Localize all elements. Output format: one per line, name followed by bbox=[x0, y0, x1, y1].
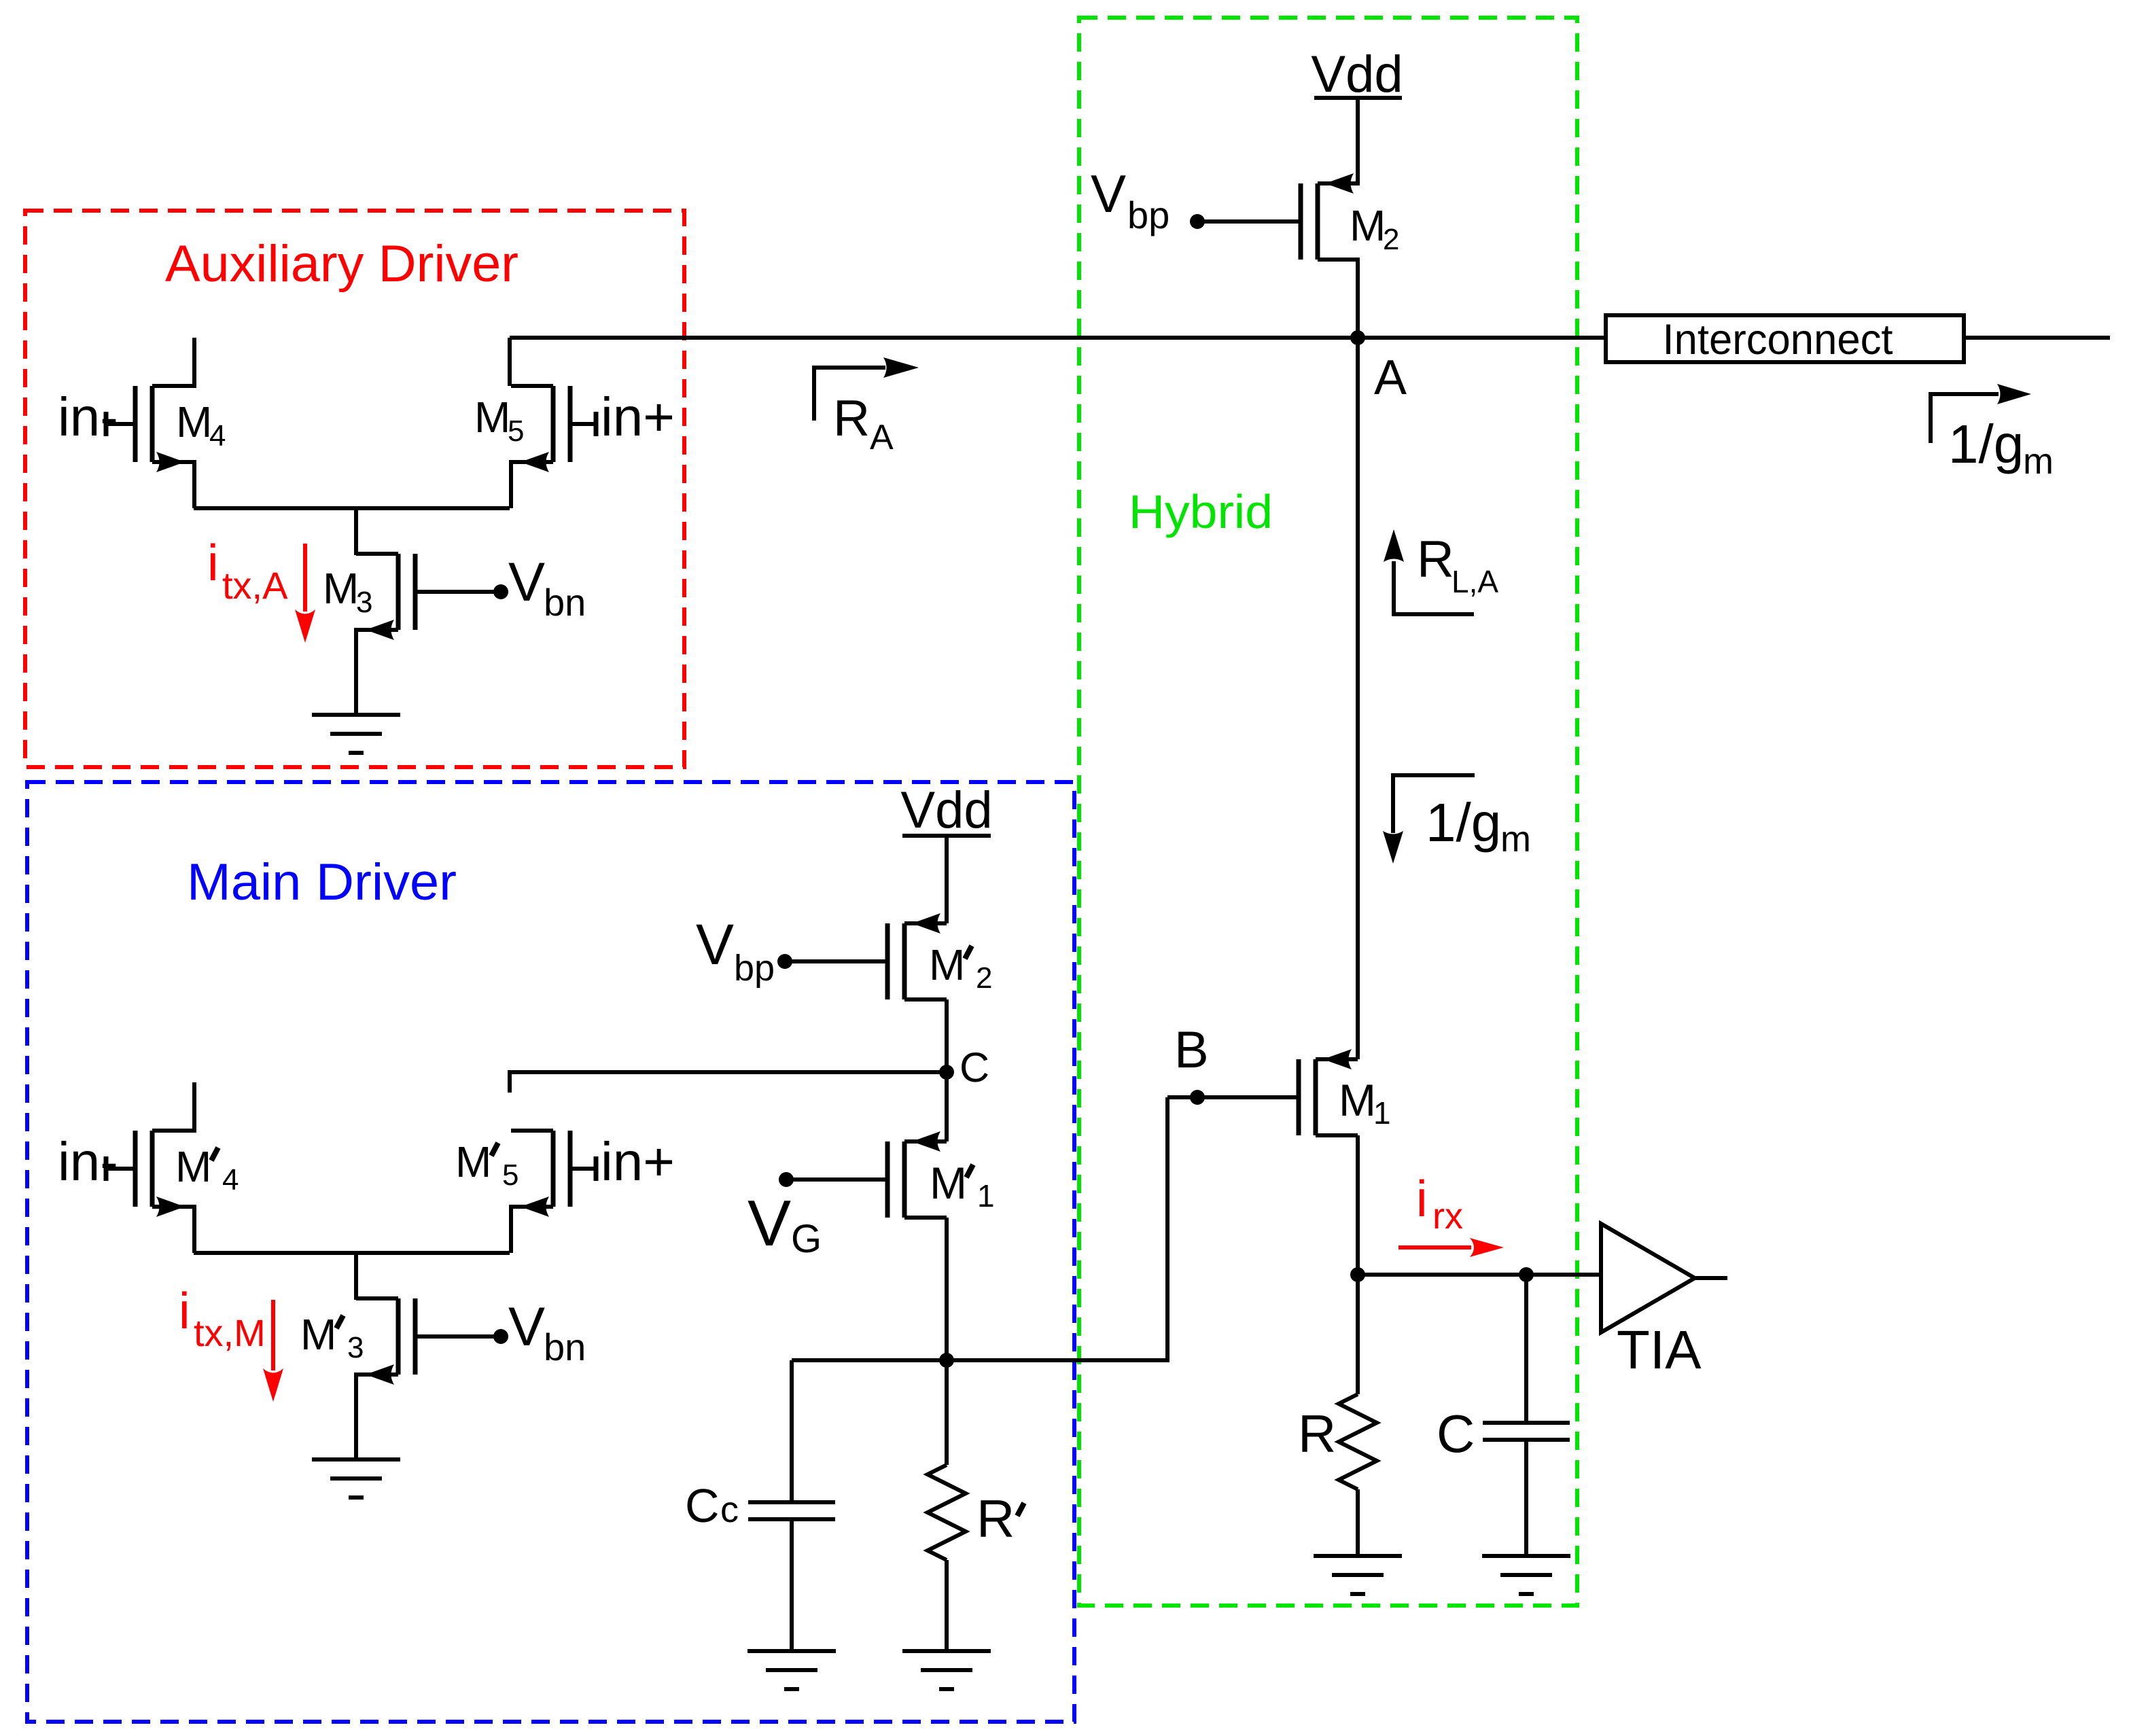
label in- (aux) bbox=[58, 387, 118, 447]
svg-text:R: R bbox=[833, 389, 870, 446]
op-amp TIA bbox=[1601, 1224, 1727, 1332]
svg-text:Vdd: Vdd bbox=[1311, 46, 1403, 103]
svg-text:V: V bbox=[747, 1187, 791, 1260]
svg-text:R: R bbox=[976, 1489, 1015, 1548]
label M1 bbox=[1339, 1075, 1391, 1131]
transistor M'1 bbox=[786, 1131, 947, 1218]
wire interconnect output bbox=[1964, 336, 2110, 340]
transistor M1 bbox=[1167, 1049, 1358, 1135]
svg-text:M: M bbox=[474, 393, 510, 442]
arrow 1/gm annotation (hybrid) bbox=[1383, 775, 1475, 864]
wire Vdd to M2 source bbox=[1356, 98, 1360, 183]
svg-text:in-: in- bbox=[58, 387, 118, 447]
wire M5 drain to output bus bbox=[508, 338, 512, 386]
label TIA bbox=[1617, 1319, 1702, 1380]
node B bbox=[1174, 1021, 1209, 1105]
wire node to Cc branch bbox=[792, 1358, 947, 1362]
label in- (main) bbox=[58, 1131, 118, 1192]
svg-text:L,A: L,A bbox=[1451, 564, 1498, 599]
wire main tail drain riser bbox=[354, 1253, 358, 1300]
label M'4 bbox=[175, 1142, 239, 1197]
label M'2 bbox=[929, 940, 992, 995]
wire node A to M1 source bbox=[1356, 338, 1360, 1059]
auxiliary driver boundary box bbox=[25, 211, 684, 767]
label M2 bbox=[1350, 201, 1399, 256]
power Vdd (main) bbox=[900, 781, 992, 839]
label R' bbox=[976, 1489, 1024, 1548]
label M5 bbox=[474, 393, 524, 448]
svg-text:1/g: 1/g bbox=[1948, 414, 2024, 474]
svg-text:i: i bbox=[179, 1282, 190, 1339]
svg-text:Auxiliary Driver: Auxiliary Driver bbox=[165, 235, 518, 293]
wire node C to M'1 source bbox=[945, 1072, 949, 1141]
svg-text:C: C bbox=[685, 1479, 720, 1532]
svg-text:A: A bbox=[1374, 351, 1407, 405]
wire R to ground bbox=[1356, 1489, 1360, 1556]
label Auxiliary Driver bbox=[165, 235, 518, 293]
svg-text:tx,M: tx,M bbox=[194, 1311, 266, 1354]
svg-text:bn: bn bbox=[544, 581, 586, 624]
svg-text:M: M bbox=[929, 940, 965, 989]
svg-text:R: R bbox=[1417, 531, 1454, 588]
transistor M4 bbox=[106, 338, 194, 508]
svg-text:G: G bbox=[791, 1217, 822, 1261]
arrow R_L,A annotation bbox=[1384, 529, 1474, 614]
label Main Driver bbox=[187, 853, 457, 911]
resistor R' bbox=[928, 1465, 966, 1560]
svg-text:i: i bbox=[207, 534, 219, 591]
wire node B riser bbox=[949, 1097, 1167, 1360]
svg-text:5: 5 bbox=[502, 1158, 518, 1192]
transistor M2 bbox=[1197, 173, 1360, 260]
label in+ (main) bbox=[601, 1131, 675, 1192]
ground (main tail) bbox=[312, 1459, 400, 1498]
label C (hybrid) bbox=[1437, 1404, 1475, 1464]
node main output bbox=[939, 1353, 954, 1368]
svg-text:C: C bbox=[1437, 1404, 1475, 1464]
svg-text:bp: bp bbox=[734, 948, 775, 989]
label M4 bbox=[176, 397, 226, 453]
label M'3 bbox=[300, 1310, 364, 1364]
ground (R) bbox=[1314, 1556, 1402, 1594]
label i_tx,M bbox=[179, 1282, 266, 1354]
svg-text:4: 4 bbox=[222, 1163, 239, 1197]
svg-text:TIA: TIA bbox=[1617, 1319, 1702, 1380]
label in+ (aux) bbox=[601, 387, 675, 447]
wire aux common source line bbox=[194, 506, 510, 510]
main driver boundary box bbox=[27, 782, 1074, 1722]
svg-text:B: B bbox=[1174, 1021, 1209, 1079]
terminal Vbp (main) bbox=[696, 913, 792, 989]
arrow i_tx,A bbox=[295, 544, 315, 643]
wire node C to M'5 bbox=[510, 1072, 947, 1093]
svg-text:Hybrid: Hybrid bbox=[1129, 485, 1273, 538]
svg-text:M: M bbox=[176, 397, 212, 446]
arrow 1/gm annotation (right) bbox=[1931, 384, 2031, 443]
hybrid boundary box bbox=[1079, 18, 1577, 1606]
ground (Cc) bbox=[747, 1651, 836, 1689]
wire Cc to ground bbox=[790, 1519, 794, 1651]
wire node to R' branch bbox=[945, 1360, 949, 1465]
ground (aux tail) bbox=[312, 715, 400, 753]
terminal Vbn (main) bbox=[493, 1296, 586, 1368]
svg-text:in-: in- bbox=[58, 1131, 118, 1192]
wire Cc branch down bbox=[790, 1360, 794, 1502]
svg-text:Interconnect: Interconnect bbox=[1663, 316, 1893, 364]
label R_L,A bbox=[1417, 531, 1498, 599]
svg-text:Main Driver: Main Driver bbox=[187, 853, 457, 911]
svg-text:bn: bn bbox=[544, 1326, 586, 1368]
terminal Vbn (aux) bbox=[493, 552, 586, 624]
wire output bus bbox=[510, 336, 1606, 340]
ground (C) bbox=[1482, 1556, 1570, 1594]
ground (R') bbox=[902, 1651, 991, 1689]
node C-cap junction bbox=[1519, 1267, 1534, 1282]
label M'1 bbox=[930, 1158, 995, 1214]
label i_rx bbox=[1416, 1170, 1463, 1237]
wire Vdd to M'2 source bbox=[945, 836, 949, 923]
arrow R_A annotation bbox=[814, 357, 919, 421]
svg-text:m: m bbox=[2023, 441, 2054, 482]
svg-text:3: 3 bbox=[356, 586, 372, 619]
label i_tx,A bbox=[207, 534, 288, 607]
svg-text:Vdd: Vdd bbox=[900, 781, 992, 839]
wire M1 drain to rx node bbox=[1356, 1135, 1360, 1275]
node C bbox=[939, 1044, 989, 1091]
svg-text:R: R bbox=[1298, 1404, 1336, 1464]
label Hybrid bbox=[1129, 485, 1273, 538]
svg-text:V: V bbox=[508, 1296, 545, 1358]
wire R' to ground bbox=[945, 1560, 949, 1651]
svg-text:i: i bbox=[1416, 1170, 1428, 1227]
terminal VG bbox=[747, 1172, 822, 1261]
svg-text:m: m bbox=[1500, 819, 1531, 860]
wire rx node to TIA bbox=[1358, 1273, 1601, 1277]
transistor M'4 bbox=[106, 1082, 194, 1253]
label 1/gm (right) bbox=[1948, 414, 2054, 482]
svg-text:M: M bbox=[1350, 201, 1386, 250]
svg-text:V: V bbox=[696, 913, 734, 976]
svg-text:M: M bbox=[300, 1310, 336, 1359]
svg-text:3: 3 bbox=[347, 1331, 364, 1364]
transistor M'5 bbox=[511, 1131, 596, 1253]
svg-text:rx: rx bbox=[1432, 1196, 1463, 1237]
wire rx node to R bbox=[1356, 1275, 1360, 1394]
label Cc bbox=[685, 1479, 739, 1532]
svg-text:5: 5 bbox=[508, 414, 524, 448]
svg-text:1: 1 bbox=[977, 1178, 995, 1214]
capacitor C bbox=[1483, 1423, 1570, 1440]
svg-text:M: M bbox=[1339, 1075, 1376, 1125]
svg-text:V: V bbox=[1091, 164, 1126, 224]
capacitor Cc bbox=[748, 1502, 835, 1519]
svg-text:c: c bbox=[720, 1489, 739, 1530]
wire rx node to cap C bbox=[1524, 1275, 1528, 1423]
transistor M'3 bbox=[356, 1298, 501, 1459]
wire M'1 drain to node bbox=[945, 1218, 949, 1360]
interconnect box bbox=[1606, 315, 1964, 364]
arrow i_tx,M bbox=[263, 1300, 283, 1402]
transistor M'2 bbox=[785, 913, 947, 999]
wire main common source line bbox=[194, 1251, 510, 1255]
label 1/gm (hybrid) bbox=[1426, 792, 1531, 860]
svg-text:2: 2 bbox=[1383, 223, 1399, 256]
svg-text:V: V bbox=[508, 552, 545, 613]
wire cap C to ground bbox=[1524, 1440, 1528, 1556]
svg-text:2: 2 bbox=[976, 961, 992, 995]
transistor M5 bbox=[511, 386, 596, 508]
wire aux tail drain riser bbox=[354, 508, 358, 555]
svg-text:tx,A: tx,A bbox=[222, 564, 288, 607]
svg-text:in+: in+ bbox=[601, 387, 675, 447]
svg-text:1/g: 1/g bbox=[1426, 792, 1501, 853]
svg-text:A: A bbox=[870, 418, 894, 457]
svg-text:M: M bbox=[175, 1142, 211, 1191]
label M3 bbox=[323, 564, 372, 619]
arrow i_rx bbox=[1398, 1238, 1504, 1257]
resistor R bbox=[1339, 1394, 1377, 1489]
label M'5 bbox=[455, 1137, 518, 1192]
node A bbox=[1350, 330, 1407, 405]
svg-text:M: M bbox=[323, 564, 359, 613]
svg-text:bp: bp bbox=[1127, 194, 1169, 236]
svg-text:M: M bbox=[930, 1158, 967, 1208]
power Vdd (hybrid) bbox=[1311, 46, 1403, 103]
svg-text:M: M bbox=[455, 1137, 491, 1186]
label R bbox=[1298, 1404, 1336, 1464]
transistor M3 bbox=[356, 554, 501, 715]
node rx junction bbox=[1350, 1267, 1365, 1282]
svg-text:in+: in+ bbox=[601, 1131, 675, 1192]
wire M'2 drain to node C bbox=[945, 999, 949, 1072]
label R_A bbox=[833, 389, 894, 457]
wire M2 drain to node A bbox=[1356, 260, 1360, 338]
svg-text:C: C bbox=[960, 1044, 989, 1091]
svg-text:1: 1 bbox=[1373, 1095, 1391, 1131]
svg-text:4: 4 bbox=[209, 419, 226, 453]
terminal Vbp (hybrid) bbox=[1091, 164, 1205, 236]
